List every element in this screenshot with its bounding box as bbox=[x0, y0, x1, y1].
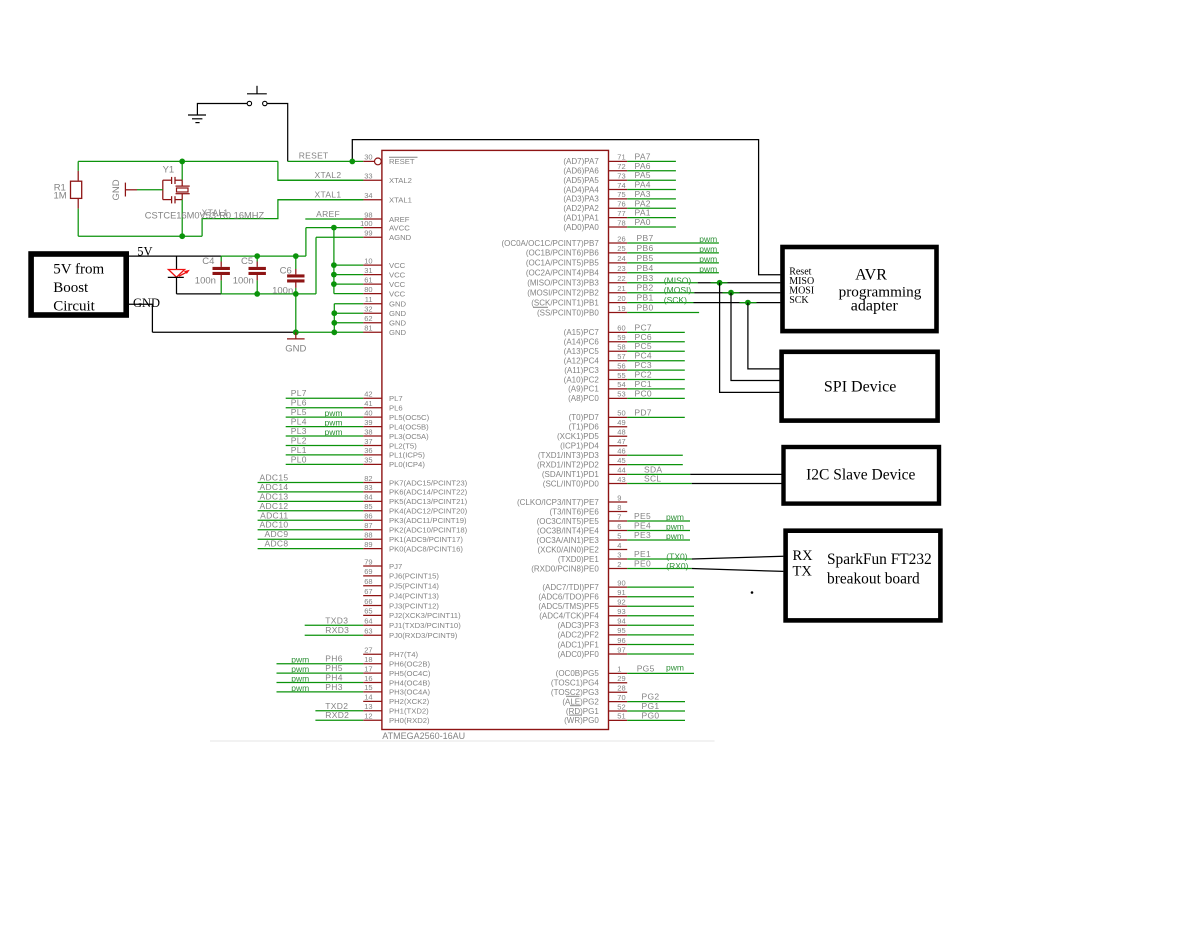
wire RX0 to TX bbox=[692, 569, 784, 572]
svg-text:59: 59 bbox=[617, 333, 625, 342]
svg-text:(ADC4/TCK)PF4: (ADC4/TCK)PF4 bbox=[539, 612, 599, 621]
svg-text:39: 39 bbox=[364, 418, 372, 427]
pin 59 (A14)PC6 bbox=[564, 332, 685, 347]
wire SCL black bbox=[692, 483, 783, 485]
pin 43 (SCL/INT0)PD0 bbox=[543, 474, 692, 489]
pin 83 PK6(ADC14/PCINT22) bbox=[258, 482, 468, 497]
pin 50 (T0)PD7 bbox=[569, 407, 685, 422]
svg-text:17: 17 bbox=[364, 664, 372, 673]
svg-text:92: 92 bbox=[617, 598, 625, 607]
pin 4 (XCK0/AIN0)PE2 bbox=[537, 541, 627, 555]
svg-text:PL1(ICP5): PL1(ICP5) bbox=[389, 451, 425, 460]
wire crystal top lead bbox=[181, 161, 183, 180]
svg-text:GND: GND bbox=[389, 300, 407, 309]
ground symbol at switch bbox=[188, 115, 206, 123]
svg-text:PK0(ADC8/PCINT16): PK0(ADC8/PCINT16) bbox=[389, 544, 463, 553]
svg-text:(OC3C/INT5)PE5: (OC3C/INT5)PE5 bbox=[537, 517, 600, 526]
wire 5V rail black bbox=[129, 255, 221, 257]
svg-text:PJ4(PCINT13): PJ4(PCINT13) bbox=[389, 591, 439, 600]
pin 9 (CLKO/ICP3/INT7)PE7 bbox=[517, 493, 627, 507]
svg-text:PK6(ADC14/PCINT22): PK6(ADC14/PCINT22) bbox=[389, 488, 468, 497]
pin 14 PH2(XCK2) bbox=[363, 693, 429, 707]
junction GND rail dist bbox=[331, 329, 337, 335]
pin 3 (TXD0)PE1 bbox=[558, 549, 692, 564]
svg-text:(OC1B/PCINT6)PB6: (OC1B/PCINT6)PB6 bbox=[526, 249, 599, 258]
svg-text:PG5: PG5 bbox=[637, 663, 655, 673]
svg-text:(ADC6/TDO)PF6: (ADC6/TDO)PF6 bbox=[538, 593, 599, 602]
svg-text:RXD3: RXD3 bbox=[325, 625, 349, 635]
switch S1 reset pushbutton bbox=[247, 86, 267, 106]
svg-text:pwm: pwm bbox=[699, 254, 717, 264]
svg-text:25: 25 bbox=[617, 244, 625, 253]
svg-text:34: 34 bbox=[364, 191, 372, 200]
svg-text:VCC: VCC bbox=[389, 289, 406, 298]
wire GND rail green bbox=[296, 331, 364, 333]
junction crystal bottom bbox=[179, 233, 185, 239]
svg-text:71: 71 bbox=[617, 153, 625, 162]
svg-text:41: 41 bbox=[364, 399, 372, 408]
svg-text:(ADC0)PF0: (ADC0)PF0 bbox=[557, 650, 599, 659]
svg-text:PE3: PE3 bbox=[634, 530, 651, 540]
svg-text:(ICP1)PD4: (ICP1)PD4 bbox=[560, 442, 599, 451]
pin 49 (T1)PD6 bbox=[569, 418, 628, 432]
pin 98 AREF bbox=[305, 210, 410, 224]
svg-text:XTAL1: XTAL1 bbox=[389, 196, 412, 205]
svg-text:VCC: VCC bbox=[389, 270, 406, 279]
wire GND rail black bbox=[152, 331, 295, 333]
pin 20 (SCK/PCINT1)PB1 bbox=[531, 293, 693, 308]
svg-text:72: 72 bbox=[617, 162, 625, 171]
svg-text:76: 76 bbox=[617, 200, 625, 209]
wire switch to ground bbox=[197, 104, 247, 115]
svg-text:PC0: PC0 bbox=[635, 388, 652, 398]
svg-text:12: 12 bbox=[364, 712, 372, 721]
overline ALE on PG2 bbox=[566, 695, 580, 697]
svg-text:95: 95 bbox=[617, 626, 625, 635]
svg-text:PB5: PB5 bbox=[637, 253, 654, 263]
svg-text:74: 74 bbox=[617, 181, 625, 190]
svg-text:PL3: PL3 bbox=[291, 426, 307, 436]
wire 5V to AVCC bbox=[305, 228, 307, 257]
svg-text:PC5: PC5 bbox=[635, 341, 652, 351]
svg-text:90: 90 bbox=[617, 578, 625, 587]
crystal Y1 resonator bbox=[163, 177, 190, 204]
svg-text:(OC1A/PCINT5)PB5: (OC1A/PCINT5)PB5 bbox=[526, 259, 599, 268]
pin 5 (OC3A/AIN1)PE3 bbox=[537, 530, 690, 545]
junction VCC 31 bbox=[331, 272, 337, 278]
pin 18 PH6(OC2B) bbox=[277, 654, 431, 669]
wire VCC distribution vertical bbox=[333, 228, 335, 294]
svg-text:(ADC2)PF2: (ADC2)PF2 bbox=[557, 631, 599, 640]
IC U1 ATMEGA2560-16AU body bbox=[382, 150, 609, 729]
svg-text:46: 46 bbox=[617, 447, 625, 456]
svg-text:60: 60 bbox=[617, 324, 625, 333]
svg-text:PE0: PE0 bbox=[634, 559, 651, 569]
svg-text:AVR: AVR bbox=[855, 266, 887, 283]
svg-text:breakout board: breakout board bbox=[827, 571, 920, 588]
svg-text:ADC12: ADC12 bbox=[259, 501, 288, 511]
pin 36 PL1(ICP5) bbox=[286, 445, 426, 460]
wire SDA black bbox=[690, 473, 782, 475]
pin 93 (ADC4/TCK)PF4 bbox=[539, 607, 694, 621]
svg-text:TX: TX bbox=[793, 563, 813, 579]
pin 97 (ADC0)PF0 bbox=[557, 645, 694, 659]
pin 56 (A11)PC3 bbox=[564, 360, 685, 375]
svg-text:56: 56 bbox=[617, 361, 625, 370]
svg-text:43: 43 bbox=[617, 475, 625, 484]
svg-text:RESET: RESET bbox=[389, 157, 415, 166]
pin 15 PH3(OC4A) bbox=[277, 682, 431, 697]
pin 44 (SDA/INT1)PD1 bbox=[542, 464, 690, 479]
pin 40 PL5(OC5C) bbox=[286, 407, 430, 422]
svg-text:PB6: PB6 bbox=[637, 243, 654, 253]
svg-text:PK7(ADC15/PCINT23): PK7(ADC15/PCINT23) bbox=[389, 478, 468, 487]
svg-text:80: 80 bbox=[364, 285, 372, 294]
svg-text:75: 75 bbox=[617, 190, 625, 199]
junction MISO bbox=[717, 280, 723, 286]
svg-text:TXD3: TXD3 bbox=[325, 615, 348, 625]
pin 34 XTAL1 bbox=[278, 191, 412, 205]
pin 95 (ADC2)PF2 bbox=[557, 626, 694, 640]
svg-text:Boost: Boost bbox=[53, 280, 89, 296]
svg-text:100: 100 bbox=[360, 219, 373, 228]
pin 31 VCC bbox=[334, 266, 406, 280]
svg-text:PB7: PB7 bbox=[637, 233, 654, 243]
svg-text:Circuit: Circuit bbox=[53, 298, 95, 314]
svg-text:RESET: RESET bbox=[299, 150, 329, 160]
svg-text:PB2: PB2 bbox=[637, 283, 654, 293]
svg-text:82: 82 bbox=[364, 474, 372, 483]
svg-text:(TXD1/INT3)PD3: (TXD1/INT3)PD3 bbox=[538, 451, 599, 460]
svg-text:PB1: PB1 bbox=[637, 293, 654, 303]
svg-text:19: 19 bbox=[617, 304, 625, 313]
supply GND symbol bbox=[287, 332, 305, 339]
svg-text:55: 55 bbox=[617, 371, 625, 380]
svg-text:PH4(OC4B): PH4(OC4B) bbox=[389, 678, 430, 687]
svg-text:XTAL2: XTAL2 bbox=[315, 170, 342, 180]
svg-text:83: 83 bbox=[364, 483, 372, 492]
pin 92 (ADC5/TMS)PF5 bbox=[538, 598, 694, 612]
pin 29 (TOSC1)PG4 bbox=[551, 674, 627, 688]
svg-text:pwm: pwm bbox=[699, 234, 717, 244]
overline SS on PB0 bbox=[533, 306, 548, 308]
svg-text:(A8)PC0: (A8)PC0 bbox=[568, 394, 599, 403]
svg-text:42: 42 bbox=[364, 390, 372, 399]
junction AVCC branch bbox=[331, 225, 337, 231]
svg-text:48: 48 bbox=[617, 428, 625, 437]
svg-text:86: 86 bbox=[364, 512, 372, 521]
wire AGND vertical bbox=[315, 237, 317, 294]
svg-text:50: 50 bbox=[617, 409, 625, 418]
svg-text:85: 85 bbox=[364, 502, 372, 511]
svg-text:(SCK): (SCK) bbox=[664, 295, 687, 305]
wire C6 gnd drop bbox=[295, 294, 297, 332]
svg-text:96: 96 bbox=[617, 636, 625, 645]
wire SCK black bbox=[694, 302, 781, 304]
svg-text:SPI Device: SPI Device bbox=[824, 378, 896, 395]
svg-text:(ADC3)PF3: (ADC3)PF3 bbox=[557, 621, 599, 630]
svg-text:15: 15 bbox=[364, 683, 372, 692]
svg-text:(AD3)PA3: (AD3)PA3 bbox=[563, 195, 599, 204]
LED D1 bbox=[168, 256, 190, 294]
svg-text:58: 58 bbox=[617, 343, 625, 352]
faint divider line bbox=[210, 740, 715, 742]
svg-text:PL5: PL5 bbox=[291, 407, 307, 417]
junction GND 32 bbox=[331, 310, 337, 316]
svg-text:GND: GND bbox=[285, 344, 306, 355]
svg-text:PD7: PD7 bbox=[634, 407, 651, 417]
svg-text:(A15)PC7: (A15)PC7 bbox=[564, 328, 600, 337]
svg-text:XTAL2: XTAL2 bbox=[389, 176, 412, 185]
svg-text:(A9)PC1: (A9)PC1 bbox=[568, 385, 599, 394]
capacitor C4 bbox=[213, 256, 230, 294]
pin 76 (AD2)PA2 bbox=[563, 198, 676, 213]
svg-text:(ADC1)PF1: (ADC1)PF1 bbox=[557, 640, 599, 649]
svg-text:4: 4 bbox=[617, 541, 621, 550]
svg-text:(SDA/INT1)PD1: (SDA/INT1)PD1 bbox=[542, 470, 599, 479]
wire MISO to SPI bbox=[720, 283, 780, 393]
svg-text:40: 40 bbox=[364, 408, 372, 417]
pin 30 RESET bbox=[288, 153, 418, 167]
pin 7 (OC3C/INT5)PE5 bbox=[537, 511, 690, 526]
svg-text:81: 81 bbox=[364, 324, 372, 333]
pin labels Reset MISO MOSI SCK bbox=[789, 266, 814, 305]
svg-text:(AD1)PA1: (AD1)PA1 bbox=[563, 213, 599, 222]
pin 64 PJ1(TXD3/PCINT10) bbox=[305, 615, 462, 630]
svg-text:20: 20 bbox=[617, 294, 625, 303]
pin 87 PK2(ADC10/PCINT18) bbox=[258, 520, 468, 535]
svg-text:PC1: PC1 bbox=[635, 379, 652, 389]
svg-text:PL0(ICP4): PL0(ICP4) bbox=[389, 460, 425, 469]
junction C6 top bbox=[293, 253, 299, 259]
svg-text:(CLKO/ICP3/INT7)PE7: (CLKO/ICP3/INT7)PE7 bbox=[517, 498, 599, 507]
svg-text:(XCK0/AIN0)PE2: (XCK0/AIN0)PE2 bbox=[537, 545, 599, 554]
svg-text:PL6: PL6 bbox=[389, 404, 403, 413]
svg-text:(ALE)PG2: (ALE)PG2 bbox=[562, 697, 599, 706]
pin 27 PH7(T4) bbox=[363, 646, 418, 660]
svg-text:VCC: VCC bbox=[389, 261, 406, 270]
svg-text:pwm: pwm bbox=[666, 531, 684, 541]
pin 39 PL4(OC5B) bbox=[286, 417, 429, 432]
svg-text:(AD0)PA0: (AD0)PA0 bbox=[563, 223, 599, 232]
box SparkFun FT232 breakout board bbox=[786, 531, 941, 621]
svg-text:52: 52 bbox=[617, 702, 625, 711]
pin 66 PJ3(PCINT12) bbox=[363, 597, 439, 611]
wire caps bottom rail black bbox=[177, 293, 222, 295]
svg-text:PH5(OC4C): PH5(OC4C) bbox=[389, 669, 431, 678]
svg-text:(XCK1)PD5: (XCK1)PD5 bbox=[557, 432, 599, 441]
pin 90 (ADC7/TDI)PF7 bbox=[542, 578, 694, 592]
wire XTAL2 down-right to pin 33 bbox=[278, 161, 364, 180]
svg-text:26: 26 bbox=[617, 234, 625, 243]
svg-text:pwm: pwm bbox=[325, 408, 343, 418]
pin 86 PK3(ADC11/PCINT19) bbox=[258, 510, 467, 525]
svg-text:68: 68 bbox=[364, 577, 372, 586]
svg-text:5V from: 5V from bbox=[53, 262, 104, 278]
svg-text:PH7(T4): PH7(T4) bbox=[389, 650, 418, 659]
svg-text:31: 31 bbox=[364, 266, 372, 275]
wire 5V rail green bbox=[221, 255, 306, 257]
svg-text:(T1)PD6: (T1)PD6 bbox=[569, 423, 600, 432]
wire crystal gnd lead bbox=[125, 189, 162, 191]
pin 96 (ADC1)PF1 bbox=[557, 636, 694, 650]
svg-text:33: 33 bbox=[364, 172, 372, 181]
svg-text:(MISO): (MISO) bbox=[664, 275, 692, 285]
pin 25 (OC1B/PCINT6)PB6 bbox=[526, 243, 719, 258]
pin 82 PK7(ADC15/PCINT23) bbox=[258, 473, 468, 488]
pin 71 (AD7)PA7 bbox=[563, 151, 676, 166]
wire MISO green stub bbox=[711, 282, 728, 284]
svg-text:(WR)PG0: (WR)PG0 bbox=[564, 716, 599, 725]
svg-text:pwm: pwm bbox=[666, 522, 684, 532]
svg-text:(AD5)PA5: (AD5)PA5 bbox=[563, 176, 599, 185]
svg-text:35: 35 bbox=[364, 456, 372, 465]
pin 55 (A10)PC2 bbox=[564, 370, 685, 385]
svg-text:(A12)PC4: (A12)PC4 bbox=[564, 357, 600, 366]
svg-text:24: 24 bbox=[617, 254, 625, 263]
pin 2 (RXD0/PCIN8)PE0 bbox=[531, 559, 692, 574]
pin 12 PH0(RXD2) bbox=[315, 710, 430, 725]
svg-text:PL0: PL0 bbox=[291, 454, 307, 464]
junction C6 bottom bbox=[293, 291, 299, 297]
svg-text:VCC: VCC bbox=[389, 280, 406, 289]
resistor R1 bbox=[71, 161, 82, 208]
junction GND rail C6 bbox=[293, 329, 299, 335]
pin 60 (A15)PC7 bbox=[564, 322, 685, 337]
svg-text:(A13)PC5: (A13)PC5 bbox=[564, 347, 600, 356]
pin 72 (AD6)PA6 bbox=[563, 161, 676, 176]
pin 38 PL3(OC5A) bbox=[286, 426, 429, 441]
wire crystal bottom lead bbox=[181, 200, 183, 237]
pin 8 (T3/INT6)PE6 bbox=[549, 503, 627, 517]
svg-text:22: 22 bbox=[617, 274, 625, 283]
junction GND 62 bbox=[331, 320, 337, 326]
box SPI Device bbox=[782, 352, 938, 421]
pin 73 (AD5)PA5 bbox=[563, 170, 676, 185]
svg-text:(A11)PC3: (A11)PC3 bbox=[564, 366, 599, 375]
capacitor C6 bbox=[287, 256, 304, 294]
svg-text:PJ6(PCINT15): PJ6(PCINT15) bbox=[389, 572, 439, 581]
pin 88 PK1(ADC9/PCINT17) bbox=[258, 529, 464, 544]
svg-text:(AD2)PA2: (AD2)PA2 bbox=[563, 204, 599, 213]
svg-text:87: 87 bbox=[364, 521, 372, 530]
text SparkFun FT232 bbox=[827, 551, 932, 588]
svg-text:5: 5 bbox=[617, 531, 621, 540]
svg-text:14: 14 bbox=[364, 693, 372, 702]
svg-text:PK3(ADC11/PCINT19): PK3(ADC11/PCINT19) bbox=[389, 516, 467, 525]
box I2C Slave Device bbox=[784, 447, 940, 504]
pin 35 PL0(ICP4) bbox=[286, 454, 426, 469]
pin 21 (MOSI/PCINT2)PB2 bbox=[527, 283, 694, 298]
pin 63 PJ0(RXD3/PCINT9) bbox=[305, 625, 458, 640]
pin 70 (ALE)PG2 bbox=[562, 692, 685, 707]
svg-text:PL2(T5): PL2(T5) bbox=[389, 441, 417, 450]
svg-text:77: 77 bbox=[617, 209, 625, 218]
svg-text:GND: GND bbox=[389, 319, 407, 328]
svg-text:11: 11 bbox=[365, 295, 373, 304]
svg-text:93: 93 bbox=[617, 607, 625, 616]
wire switch to RESET net bbox=[267, 104, 288, 162]
pin 75 (AD3)PA3 bbox=[563, 189, 676, 204]
svg-text:ADC10: ADC10 bbox=[259, 520, 288, 530]
svg-text:28: 28 bbox=[617, 684, 625, 693]
wire MISO black bbox=[698, 282, 781, 284]
svg-text:PJ1(TXD3/PCINT10): PJ1(TXD3/PCINT10) bbox=[389, 621, 461, 630]
svg-text:49: 49 bbox=[617, 418, 625, 427]
svg-text:100n: 100n bbox=[233, 275, 254, 286]
svg-text:PB4: PB4 bbox=[637, 263, 654, 273]
svg-text:61: 61 bbox=[364, 275, 372, 284]
svg-text:pwm: pwm bbox=[666, 512, 684, 522]
wire SCK to SPI bbox=[748, 303, 780, 369]
svg-text:PJ5(PCINT14): PJ5(PCINT14) bbox=[389, 582, 439, 591]
svg-text:pwm: pwm bbox=[699, 264, 717, 274]
svg-text:88: 88 bbox=[364, 531, 372, 540]
svg-text:36: 36 bbox=[364, 446, 372, 455]
pin 62 GND bbox=[334, 314, 406, 328]
svg-text:23: 23 bbox=[617, 264, 625, 273]
svg-text:21: 21 bbox=[617, 284, 625, 293]
svg-text:13: 13 bbox=[364, 702, 372, 711]
wire GND distribution vertical bbox=[333, 304, 335, 333]
junction MOSI bbox=[728, 290, 734, 296]
svg-text:(T3/INT6)PE6: (T3/INT6)PE6 bbox=[549, 507, 599, 516]
svg-text:PE1: PE1 bbox=[634, 549, 651, 559]
svg-text:(SS/PCINT0)PB0: (SS/PCINT0)PB0 bbox=[537, 308, 599, 317]
pin 61 VCC bbox=[334, 275, 406, 289]
pin 16 PH4(OC4B) bbox=[277, 673, 431, 688]
wire MOSI green stub bbox=[723, 292, 740, 294]
pin 32 GND bbox=[334, 305, 406, 319]
svg-text:C6: C6 bbox=[280, 266, 292, 277]
svg-text:PE4: PE4 bbox=[634, 521, 651, 531]
pin 11 GND bbox=[334, 295, 406, 309]
svg-text:99: 99 bbox=[364, 229, 372, 238]
svg-text:SCL: SCL bbox=[644, 474, 661, 484]
svg-text:pwm: pwm bbox=[325, 427, 343, 437]
pin 45 (RXD1/INT2)PD2 bbox=[537, 456, 683, 470]
svg-text:89: 89 bbox=[364, 540, 372, 549]
svg-text:PB0: PB0 bbox=[637, 303, 654, 313]
svg-text:(AD7)PA7: (AD7)PA7 bbox=[563, 157, 599, 166]
svg-text:C4: C4 bbox=[202, 256, 214, 267]
svg-text:53: 53 bbox=[617, 390, 625, 399]
svg-text:GND: GND bbox=[389, 309, 407, 318]
junction SCK bbox=[745, 300, 751, 306]
svg-text:PA0: PA0 bbox=[635, 217, 651, 227]
pin 58 (A13)PC5 bbox=[564, 341, 685, 356]
svg-text:18: 18 bbox=[364, 655, 372, 664]
wire SCK green stub bbox=[740, 302, 757, 304]
pin 33 XTAL2 bbox=[278, 172, 412, 186]
svg-text:(MOSI/PCINT2)PB2: (MOSI/PCINT2)PB2 bbox=[527, 289, 599, 298]
svg-text:PH2(XCK2): PH2(XCK2) bbox=[389, 697, 430, 706]
svg-text:(AD4)PA4: (AD4)PA4 bbox=[563, 185, 599, 194]
junction C5 top bbox=[254, 253, 260, 259]
svg-text:(OC3B/INT4)PE4: (OC3B/INT4)PE4 bbox=[537, 526, 599, 535]
svg-text:3: 3 bbox=[617, 550, 621, 559]
svg-text:PK1(ADC9/PCINT17): PK1(ADC9/PCINT17) bbox=[389, 535, 463, 544]
pin 68 PJ5(PCINT14) bbox=[363, 577, 439, 591]
pin 69 PJ6(PCINT15) bbox=[363, 567, 439, 581]
svg-text:27: 27 bbox=[364, 646, 372, 655]
svg-text:(TXD0)PE1: (TXD0)PE1 bbox=[558, 555, 599, 564]
svg-text:6: 6 bbox=[617, 522, 621, 531]
junction VCC 10 bbox=[331, 262, 337, 268]
pin 1 (OC0B)PG5 bbox=[556, 662, 694, 678]
svg-text:67: 67 bbox=[364, 587, 372, 596]
svg-text:PE5: PE5 bbox=[634, 511, 651, 521]
